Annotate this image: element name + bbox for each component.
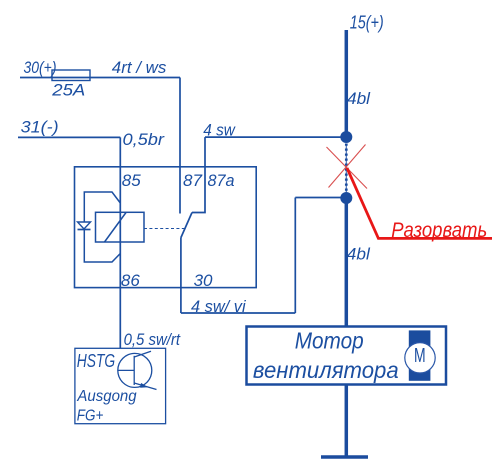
power rail 15(+) thick vertical top — [345, 30, 349, 137]
wire 4sw/vi horizontal — [181, 312, 295, 314]
power rail thick vertical to motor — [345, 198, 349, 327]
svg-text:0,5br: 0,5br — [123, 130, 166, 149]
wire terminal 85 / 86 lead vertical — [119, 137, 121, 348]
svg-text:86: 86 — [121, 271, 140, 290]
svg-text:вентилятора: вентилятора — [253, 357, 399, 383]
wire 4sw horizontal — [205, 136, 346, 138]
fuse F1 25A — [52, 70, 90, 81]
svg-text:HSTG: HSTG — [77, 351, 115, 371]
svg-text:85: 85 — [122, 171, 141, 190]
diode V1 top link — [84, 192, 120, 222]
svg-text:M: M — [414, 345, 426, 367]
relay switch arm — [181, 213, 192, 238]
svg-text:4bl: 4bl — [347, 245, 371, 264]
relay actuator dashed link — [144, 228, 187, 230]
svg-text:0,5 sw/rt: 0,5 sw/rt — [124, 330, 182, 349]
transistor Q1 — [118, 351, 157, 389]
svg-text:30(+): 30(+) — [24, 58, 57, 77]
red break X — [327, 147, 368, 189]
wire terminal 87a lead vertical — [192, 137, 205, 212]
ground — [321, 455, 368, 458]
broken rail dotted section — [345, 144, 347, 193]
wire 31(-) horizontal — [18, 136, 120, 138]
relay box — [75, 167, 257, 288]
svg-text:15(+): 15(+) — [350, 12, 384, 33]
svg-text:Разорвать: Разорвать — [391, 218, 487, 242]
wire 30(+) feed horizontal — [20, 77, 180, 79]
svg-text:87: 87 — [183, 171, 202, 190]
HSTG box — [75, 348, 166, 423]
svg-text:4rt / ws: 4rt / ws — [112, 58, 167, 77]
wire terminal 30 lead vertical — [180, 238, 182, 313]
svg-text:87a: 87a — [208, 171, 235, 190]
svg-text:Мотор: Мотор — [295, 328, 364, 354]
svg-text:Ausgong: Ausgong — [76, 388, 136, 405]
node B junction dot — [340, 192, 352, 204]
svg-text:25A: 25A — [51, 81, 85, 100]
svg-text:FG+: FG+ — [77, 408, 104, 425]
diode V1 — [78, 222, 91, 229]
motor box — [247, 327, 447, 385]
svg-text:4 sw: 4 sw — [203, 120, 236, 139]
wire to node B horizontal — [295, 197, 346, 199]
wire riser vertical — [294, 198, 296, 314]
diode V1 bottom link — [84, 230, 120, 263]
red break leader line — [347, 168, 492, 238]
svg-text:30: 30 — [194, 271, 213, 290]
motor M1 symbol — [409, 330, 431, 380]
node A junction dot — [340, 131, 352, 143]
svg-text:31(-): 31(-) — [21, 118, 59, 137]
svg-text:4bl: 4bl — [347, 89, 371, 108]
power rail thick vertical to ground — [345, 385, 349, 458]
svg-text:4 sw/ vi: 4 sw/ vi — [191, 297, 247, 316]
relay coil K1 — [96, 212, 145, 242]
wire terminal 87 lead vertical — [179, 78, 181, 214]
